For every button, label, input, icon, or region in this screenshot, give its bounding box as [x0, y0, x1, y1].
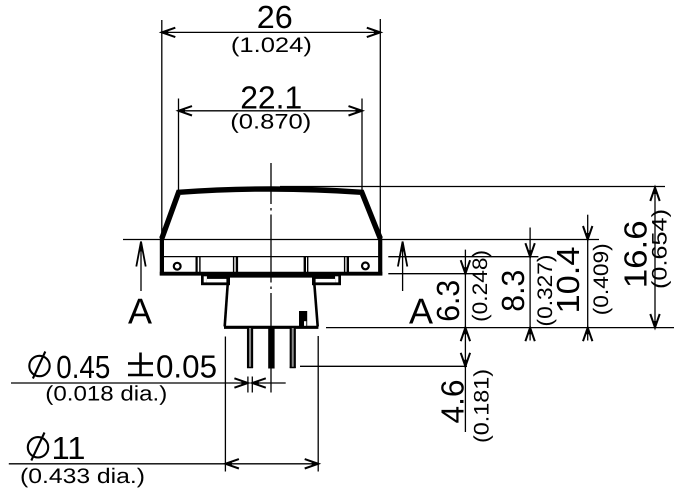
- svg-text:4.6: 4.6: [434, 380, 470, 424]
- extension line for 6.3: [388, 273, 473, 275]
- svg-text:(0.870): (0.870): [230, 111, 311, 134]
- mounting hole right: [362, 263, 369, 270]
- tolerance text: [128, 353, 153, 376]
- cap top extension line for 16.6: [280, 186, 665, 188]
- arrow 4.6 bottom: [461, 353, 470, 367]
- arrows 10.4: [583, 226, 592, 240]
- dimension line 10.4: [587, 215, 589, 341]
- dimension 22.1 extension lines: [178, 99, 180, 191]
- common bottom reference line: [326, 327, 674, 329]
- svg-text:(0.409): (0.409): [590, 243, 613, 315]
- keying feature (black): [299, 311, 307, 327]
- dia 11 arrows: [225, 459, 239, 468]
- arrows 8.3: [525, 243, 534, 257]
- pin right: [290, 328, 296, 368]
- svg-text:(1.024): (1.024): [231, 34, 312, 57]
- svg-text:(0.433 dia.): (0.433 dia.): [20, 465, 145, 488]
- svg-text:10.4: 10.4: [550, 247, 586, 314]
- svg-text:26: 26: [257, 0, 293, 35]
- svg-text:8.3: 8.3: [495, 270, 531, 312]
- svg-text:0.45: 0.45: [56, 349, 110, 385]
- svg-text:0.05: 0.05: [156, 349, 217, 385]
- dimension line 6.3 / 4.6: [464, 250, 466, 432]
- flange right edge: [378, 236, 382, 275]
- strip divider lines: [197, 257, 348, 273]
- svg-text:A: A: [128, 291, 152, 332]
- dimension 22.1 line: [179, 110, 363, 112]
- pin left: [247, 328, 253, 368]
- phi symbol 0.45: [29, 352, 49, 379]
- dimension line 8.3: [529, 228, 531, 341]
- arrows 6.3: [461, 260, 470, 274]
- flange left edge: [160, 236, 164, 275]
- pin bottom extension line: [300, 365, 467, 367]
- svg-text:(0.018 dia.): (0.018 dia.): [45, 383, 167, 406]
- section line A-A / flange top line: [123, 239, 599, 241]
- svg-text:6.3: 6.3: [430, 280, 466, 322]
- pin center: [268, 327, 274, 369]
- dia 11 leader and dimension line: [9, 463, 318, 465]
- button cap outline: [162, 189, 380, 239]
- dia 0.45 leader line: [11, 382, 248, 384]
- phi symbol 11: [28, 433, 48, 461]
- section arrow A right: [398, 242, 407, 292]
- extension line for 8.3: [388, 256, 538, 258]
- svg-text:(0.654): (0.654): [648, 209, 671, 289]
- lower body trapezoid: [224, 276, 318, 327]
- dimension 26 line: [162, 31, 380, 33]
- strip top line: [163, 256, 378, 258]
- arrows 16.6: [650, 188, 659, 202]
- dimension line 16.6: [654, 188, 656, 328]
- flange bottom edge: [160, 272, 382, 276]
- right mounting bracket below flange: [312, 275, 341, 285]
- dia 11 extension lines: [224, 337, 226, 472]
- dimension 22.1 arrows: [179, 106, 193, 115]
- svg-text:(0.181): (0.181): [470, 369, 493, 443]
- svg-text:11: 11: [52, 430, 86, 466]
- dimension 26 arrows: [162, 28, 176, 37]
- section arrow A left: [136, 242, 145, 292]
- mounting hole left: [174, 263, 181, 270]
- centerline: [270, 163, 272, 393]
- left mounting bracket below flange: [201, 275, 230, 285]
- dia 0.45 arrows and ticks: [234, 377, 285, 393]
- dimension 26 extension lines: [161, 20, 163, 237]
- svg-text:(0.248): (0.248): [469, 250, 492, 322]
